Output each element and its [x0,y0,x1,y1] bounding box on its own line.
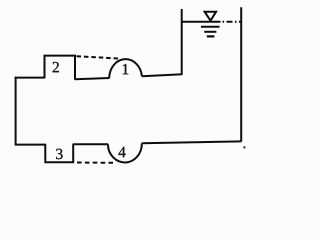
top pipe segment left [15,77,45,79]
component 3 box [45,144,73,163]
dashed line from box 2 to dome 1 [77,56,119,58]
bottom pipe segment right [142,141,241,143]
bottom pipe segment middle [73,143,108,145]
water surface line dash-dot part [223,21,242,23]
water surface line solid part [181,21,221,23]
dome 4 [108,143,142,162]
water surface triangle symbol [205,12,217,21]
dashed line from box 3 to dome 4 [77,162,113,164]
dome 1 [109,59,142,78]
water hatch line 1 [201,26,220,28]
top pipe segment middle [75,78,110,79]
label 2 [53,62,59,72]
top pipe segment right [142,74,182,76]
water hatch line 3 [207,35,215,37]
component 2 box [45,56,76,80]
water hatch line 2 [204,31,216,33]
stray dot [243,146,245,148]
label 3 [56,149,62,159]
tank right wall [240,7,242,141]
bottom pipe segment left [15,144,46,146]
label 1 [123,64,128,74]
tank left wall [181,9,183,75]
label 4 [118,147,125,157]
left vertical pipe [15,77,17,145]
